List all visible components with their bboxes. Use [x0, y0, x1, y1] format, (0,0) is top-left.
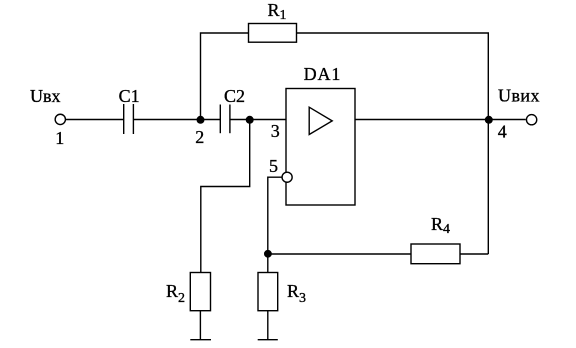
- resistor R2: [190, 273, 210, 311]
- op-amp inverting input bubble pin 5: [282, 172, 292, 182]
- wire input to C1: [66, 119, 124, 121]
- wire R4 to output column: [460, 253, 488, 255]
- svg-text:4: 4: [498, 121, 507, 141]
- ground under R3: [258, 339, 278, 341]
- op-amp triangle symbol: [309, 107, 332, 134]
- capacitor C2: [220, 105, 230, 134]
- wire R1 to output column: [297, 33, 489, 120]
- wire pin 5 bubble to vertical: [268, 177, 282, 254]
- op-amp U DA1 body: [286, 89, 355, 206]
- svg-text:1: 1: [55, 128, 64, 148]
- svg-text:5: 5: [269, 156, 278, 176]
- wire R3 to ground: [267, 311, 269, 340]
- svg-text:3: 3: [271, 121, 280, 141]
- svg-text:Uвих: Uвих: [498, 86, 540, 106]
- wire node 2 up to R1: [201, 33, 249, 120]
- node 2 junction: [197, 116, 205, 124]
- svg-text:C2: C2: [224, 86, 245, 106]
- svg-text:Uвх: Uвх: [30, 86, 61, 106]
- terminal output 4: [526, 115, 536, 125]
- wire node 4 down to R4: [487, 120, 489, 255]
- svg-text:C1: C1: [119, 86, 140, 106]
- svg-text:2: 2: [195, 127, 204, 147]
- wire R4 to node on pin 5 net: [268, 253, 411, 255]
- terminal input 1: [55, 114, 65, 124]
- node 4 junction: [485, 116, 493, 124]
- resistor R3: [258, 273, 278, 311]
- resistor R4: [411, 244, 460, 264]
- capacitor C1: [124, 104, 134, 134]
- wire C2 to op-amp input: [230, 119, 286, 121]
- resistor R1: [249, 24, 297, 43]
- junction on pin 5 net: [264, 250, 272, 258]
- svg-text:DA1: DA1: [304, 64, 342, 84]
- wire R2 to ground: [199, 311, 201, 340]
- wire junction down to R3: [267, 254, 269, 273]
- node 3 junction: [246, 116, 254, 124]
- wire node 3 down and over to R2: [201, 120, 250, 273]
- ground under R2: [190, 339, 211, 341]
- wire op-amp output to node 4: [355, 119, 526, 121]
- wire C1 to node 2: [133, 119, 220, 121]
